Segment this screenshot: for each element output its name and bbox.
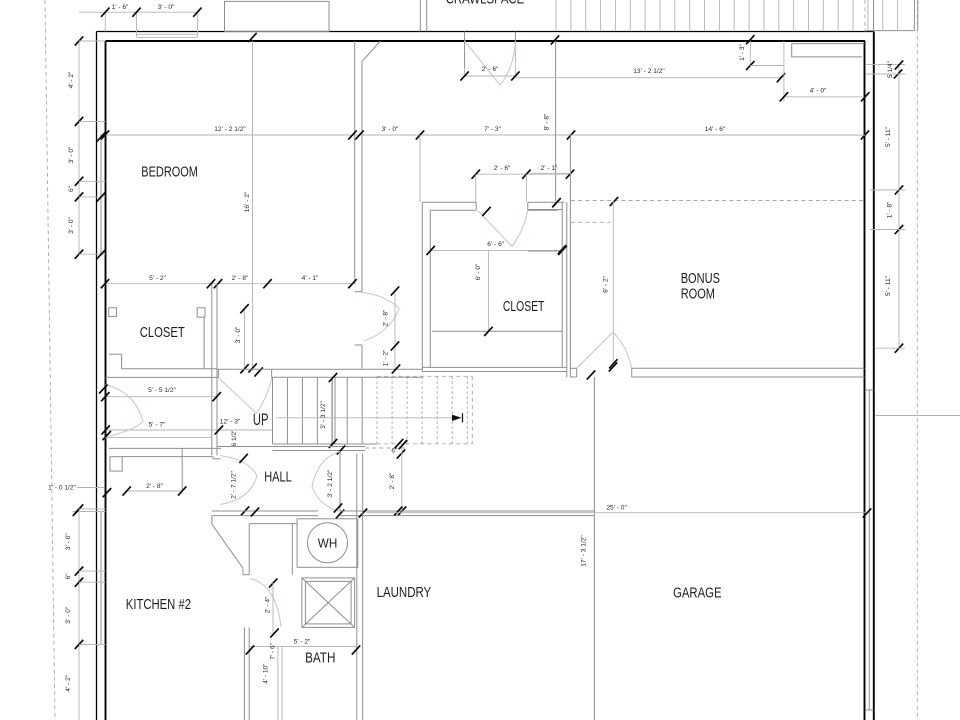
wall exterior left inner <box>105 41 107 720</box>
svg-text:4' - 0": 4' - 0" <box>810 88 827 95</box>
svg-text:2' - 4": 2' - 4" <box>265 596 272 613</box>
bath vestibule walls <box>248 524 250 575</box>
svg-text:12' - 3": 12' - 3" <box>220 419 241 426</box>
svg-text:ROOM: ROOM <box>681 287 715 303</box>
svg-text:3' - 0": 3' - 0" <box>68 146 75 163</box>
dimension 5-5 1/2 hall <box>106 396 217 398</box>
dimension 2-8 and 1-2 door wall <box>394 291 396 369</box>
window glazing left wall lower <box>100 512 102 645</box>
svg-text:8' - 2": 8' - 2" <box>603 275 610 292</box>
svg-text:3' - 0": 3' - 0" <box>382 126 399 133</box>
svg-text:BEDROOM: BEDROOM <box>141 165 198 181</box>
svg-text:6' - 0": 6' - 0" <box>475 263 482 280</box>
closet nook lines <box>528 209 562 211</box>
door hall laundry <box>312 452 340 487</box>
dimension 2-8 kitchen <box>127 490 183 492</box>
svg-text:CLOSET: CLOSET <box>140 325 185 341</box>
wall exterior right inner <box>864 41 866 720</box>
water heater closet <box>297 519 358 568</box>
svg-text:4' - 2": 4' - 2" <box>68 71 75 88</box>
wall laundry west <box>356 454 358 720</box>
svg-text:WH: WH <box>318 536 338 550</box>
wall projection above corner dashed <box>864 0 866 32</box>
porch box above top wall <box>225 1 330 31</box>
closet center left wall <box>421 202 423 371</box>
svg-text:5' - 2": 5' - 2" <box>149 275 166 282</box>
closet left door jambs <box>109 308 117 317</box>
dimension 25-0 garage <box>367 512 867 514</box>
kitchen counter divider <box>181 448 183 491</box>
svg-text:7' - 6": 7' - 6" <box>270 642 277 659</box>
property line dashed left <box>45 0 55 720</box>
dimension 4-10 vertical <box>281 647 283 720</box>
svg-text:BONUS: BONUS <box>681 271 720 287</box>
svg-text:CLOSET: CLOSET <box>503 299 545 315</box>
wall exterior top outer <box>97 31 875 33</box>
dimension 3-0 closet depth <box>244 309 246 369</box>
svg-text:2' - 8": 2' - 8" <box>146 483 163 490</box>
svg-text:BATH: BATH <box>305 650 335 666</box>
svg-text:HALL: HALL <box>264 469 292 485</box>
svg-text:2' - 8": 2' - 8" <box>232 275 249 282</box>
stairs direction line and arrow <box>276 417 461 419</box>
door bath corridor <box>250 579 281 628</box>
dimension column right side <box>898 65 900 348</box>
svg-text:4' - 1": 4' - 1" <box>302 275 319 282</box>
svg-text:3' - 0": 3' - 0" <box>65 533 72 550</box>
stairs dashed treads <box>376 376 378 444</box>
svg-text:13' - 2 1/2": 13' - 2 1/2" <box>633 68 665 75</box>
svg-text:3' - 3 1/2": 3' - 3 1/2" <box>320 400 327 428</box>
dimension 2-8 hall east <box>401 445 403 511</box>
deck hatch boundary <box>866 30 914 32</box>
dimension 2-6 2-1 closet doors <box>476 173 571 175</box>
svg-text:14' - 6": 14' - 6" <box>705 126 726 133</box>
dimension 2-6 top door <box>465 75 516 77</box>
svg-text:2' - 6": 2' - 6" <box>494 165 511 172</box>
wall hall top inner <box>272 376 423 378</box>
closet left bottom wall <box>122 368 217 370</box>
window glazing left wall upper <box>100 134 102 254</box>
shower box with X <box>302 578 355 628</box>
hall wall extension through left wall <box>73 511 106 513</box>
svg-text:3' - 0": 3' - 0" <box>158 4 175 11</box>
dimension 2-1 bonus closet <box>530 172 571 174</box>
wall hall top header <box>217 368 423 370</box>
svg-text:6' - 6": 6' - 6" <box>487 241 504 248</box>
stairs dashed outline <box>377 375 472 377</box>
svg-text:3' - 0": 3' - 0" <box>68 216 75 233</box>
svg-text:8' - 8": 8' - 8" <box>544 113 551 130</box>
door hall-center on bedroom wall <box>362 292 399 308</box>
svg-text:2' - 7 1/2": 2' - 7 1/2" <box>231 470 238 498</box>
svg-text:5 1/4": 5 1/4" <box>887 60 894 78</box>
dimension 8-2 vertical bonus <box>612 201 614 366</box>
svg-text:3' - 0": 3' - 0" <box>235 326 242 343</box>
closet center top wall <box>422 201 476 203</box>
door bonus room <box>577 332 613 368</box>
svg-text:1' - 6": 1' - 6" <box>112 4 129 11</box>
door bedroom double on left wall <box>106 385 144 422</box>
closet left inner wall <box>203 316 205 368</box>
svg-text:5' - 5 1/2": 5' - 5 1/2" <box>148 387 176 394</box>
svg-text:4' - 10": 4' - 10" <box>263 663 270 684</box>
dimension 6 inch stair wall <box>395 439 403 448</box>
dimension extension line closet corner <box>419 135 421 202</box>
dimension 2-4 bath door <box>272 583 274 633</box>
window in top wall <box>137 33 198 35</box>
svg-text:17' - 3 1/2": 17' - 3 1/2" <box>581 535 588 567</box>
svg-text:CRAWLSPACE: CRAWLSPACE <box>446 0 525 7</box>
dimension 6-6 closet width <box>431 249 563 251</box>
window glazing right wall <box>868 390 870 710</box>
crawlspace access double line <box>419 0 421 32</box>
wall bedroom right companion with chamfer <box>361 62 363 292</box>
svg-text:KITCHEN #2: KITCHEN #2 <box>126 597 191 613</box>
kitchen counter left box <box>110 457 122 471</box>
door kitchen hall double <box>220 456 257 477</box>
dimension 3-2 1/2 hall door <box>339 452 341 512</box>
svg-text:6 1/2": 6 1/2" <box>231 429 238 447</box>
kitchen counter top edge <box>109 447 221 449</box>
dimension 5-7 hall <box>106 429 272 431</box>
wall exterior top inner <box>106 40 866 42</box>
bonus dashed ceiling line upper <box>571 200 866 202</box>
door center closet <box>478 210 512 246</box>
door left closet hall <box>218 378 256 414</box>
property line dashed right <box>916 0 918 720</box>
bath corridor west wall <box>243 627 245 720</box>
closet center bottom wall <box>422 366 567 368</box>
kitchen counter inner edge <box>122 456 213 458</box>
svg-text:5' - 7": 5' - 7" <box>149 422 166 429</box>
svg-text:6": 6" <box>68 185 75 192</box>
svg-text:5' - 11": 5' - 11" <box>885 126 892 147</box>
svg-text:12' - 2 1/2": 12' - 2 1/2" <box>214 126 246 133</box>
wall bonus south <box>632 367 865 369</box>
dimension row y283 closets <box>106 283 353 285</box>
dimension connector right top <box>866 64 905 66</box>
dimension 7-6 vertical <box>277 647 279 720</box>
svg-text:6": 6" <box>391 448 398 455</box>
svg-text:16' - 2": 16' - 2" <box>244 191 251 212</box>
svg-text:2' - 8": 2' - 8" <box>383 309 390 326</box>
svg-text:2' - 1": 2' - 1" <box>541 165 558 172</box>
svg-text:GARAGE: GARAGE <box>673 585 722 601</box>
svg-text:3' - 0": 3' - 0" <box>65 606 72 623</box>
dimension 8-8 vertical <box>555 41 557 201</box>
wall closet left right side <box>211 284 213 456</box>
deck hatch lines <box>555 0 557 30</box>
wall exterior left outer <box>96 32 98 720</box>
svg-text:4' - 2": 4' - 2" <box>65 674 72 691</box>
dimension 3-3 1/2 stairs <box>329 373 337 382</box>
svg-text:1' - 2": 1' - 2" <box>383 349 390 366</box>
dimension row y135 bedroom <box>106 134 572 136</box>
stairs south wall <box>217 446 365 448</box>
dimension column left upper <box>78 41 80 254</box>
wall hall south <box>212 510 318 512</box>
closet center shelf line <box>432 330 562 332</box>
stairs bottom edge <box>273 443 378 445</box>
wall bonus west <box>569 135 571 377</box>
stairs mid wall <box>331 377 333 444</box>
window seat box top right <box>792 44 862 57</box>
svg-text:6": 6" <box>65 573 72 580</box>
door top-center 2-6 <box>464 32 466 69</box>
svg-text:3' - 2 1/2": 3' - 2 1/2" <box>327 469 334 497</box>
wall exterior right outer <box>873 32 875 720</box>
svg-text:25' - 0": 25' - 0" <box>606 504 627 511</box>
svg-text:1' - 8": 1' - 8" <box>887 201 894 218</box>
dimension column left lower <box>78 509 80 720</box>
kitchen angled wall <box>211 516 213 525</box>
dimension 1-3 vertical <box>749 40 751 66</box>
dimension 5-2 bath <box>249 646 356 648</box>
svg-text:UP: UP <box>253 411 269 429</box>
left wall window ticks <box>97 132 105 141</box>
wall garage west <box>593 377 595 720</box>
dimension 4-0 <box>783 41 785 101</box>
closet center right wall <box>561 202 563 367</box>
dimension 16-2 vertical <box>252 41 254 371</box>
dimension connector right lower <box>875 415 960 417</box>
svg-text:5' - 2": 5' - 2" <box>294 639 311 646</box>
stairs solid treads <box>272 377 274 444</box>
bonus dashed ceiling line lower <box>571 221 614 223</box>
svg-text:1' - 3": 1' - 3" <box>739 43 746 60</box>
dimension 1-0 1/2 leader <box>77 487 104 489</box>
svg-text:2' - 8": 2' - 8" <box>389 472 396 489</box>
svg-text:2' - 6": 2' - 6" <box>482 66 499 73</box>
dimension row top-left <box>79 11 197 13</box>
svg-text:1' - 0 1/2": 1' - 0 1/2" <box>48 485 76 492</box>
svg-text:5' - 11": 5' - 11" <box>885 275 892 296</box>
dimension 13-2 1/2 <box>515 77 781 79</box>
dimension 6-0 vertical closet <box>487 250 489 331</box>
wall bedroom right <box>354 41 356 284</box>
water heater circle <box>308 523 348 563</box>
svg-text:7' - 3": 7' - 3" <box>484 126 501 133</box>
svg-text:LAUNDRY: LAUNDRY <box>377 585 432 601</box>
